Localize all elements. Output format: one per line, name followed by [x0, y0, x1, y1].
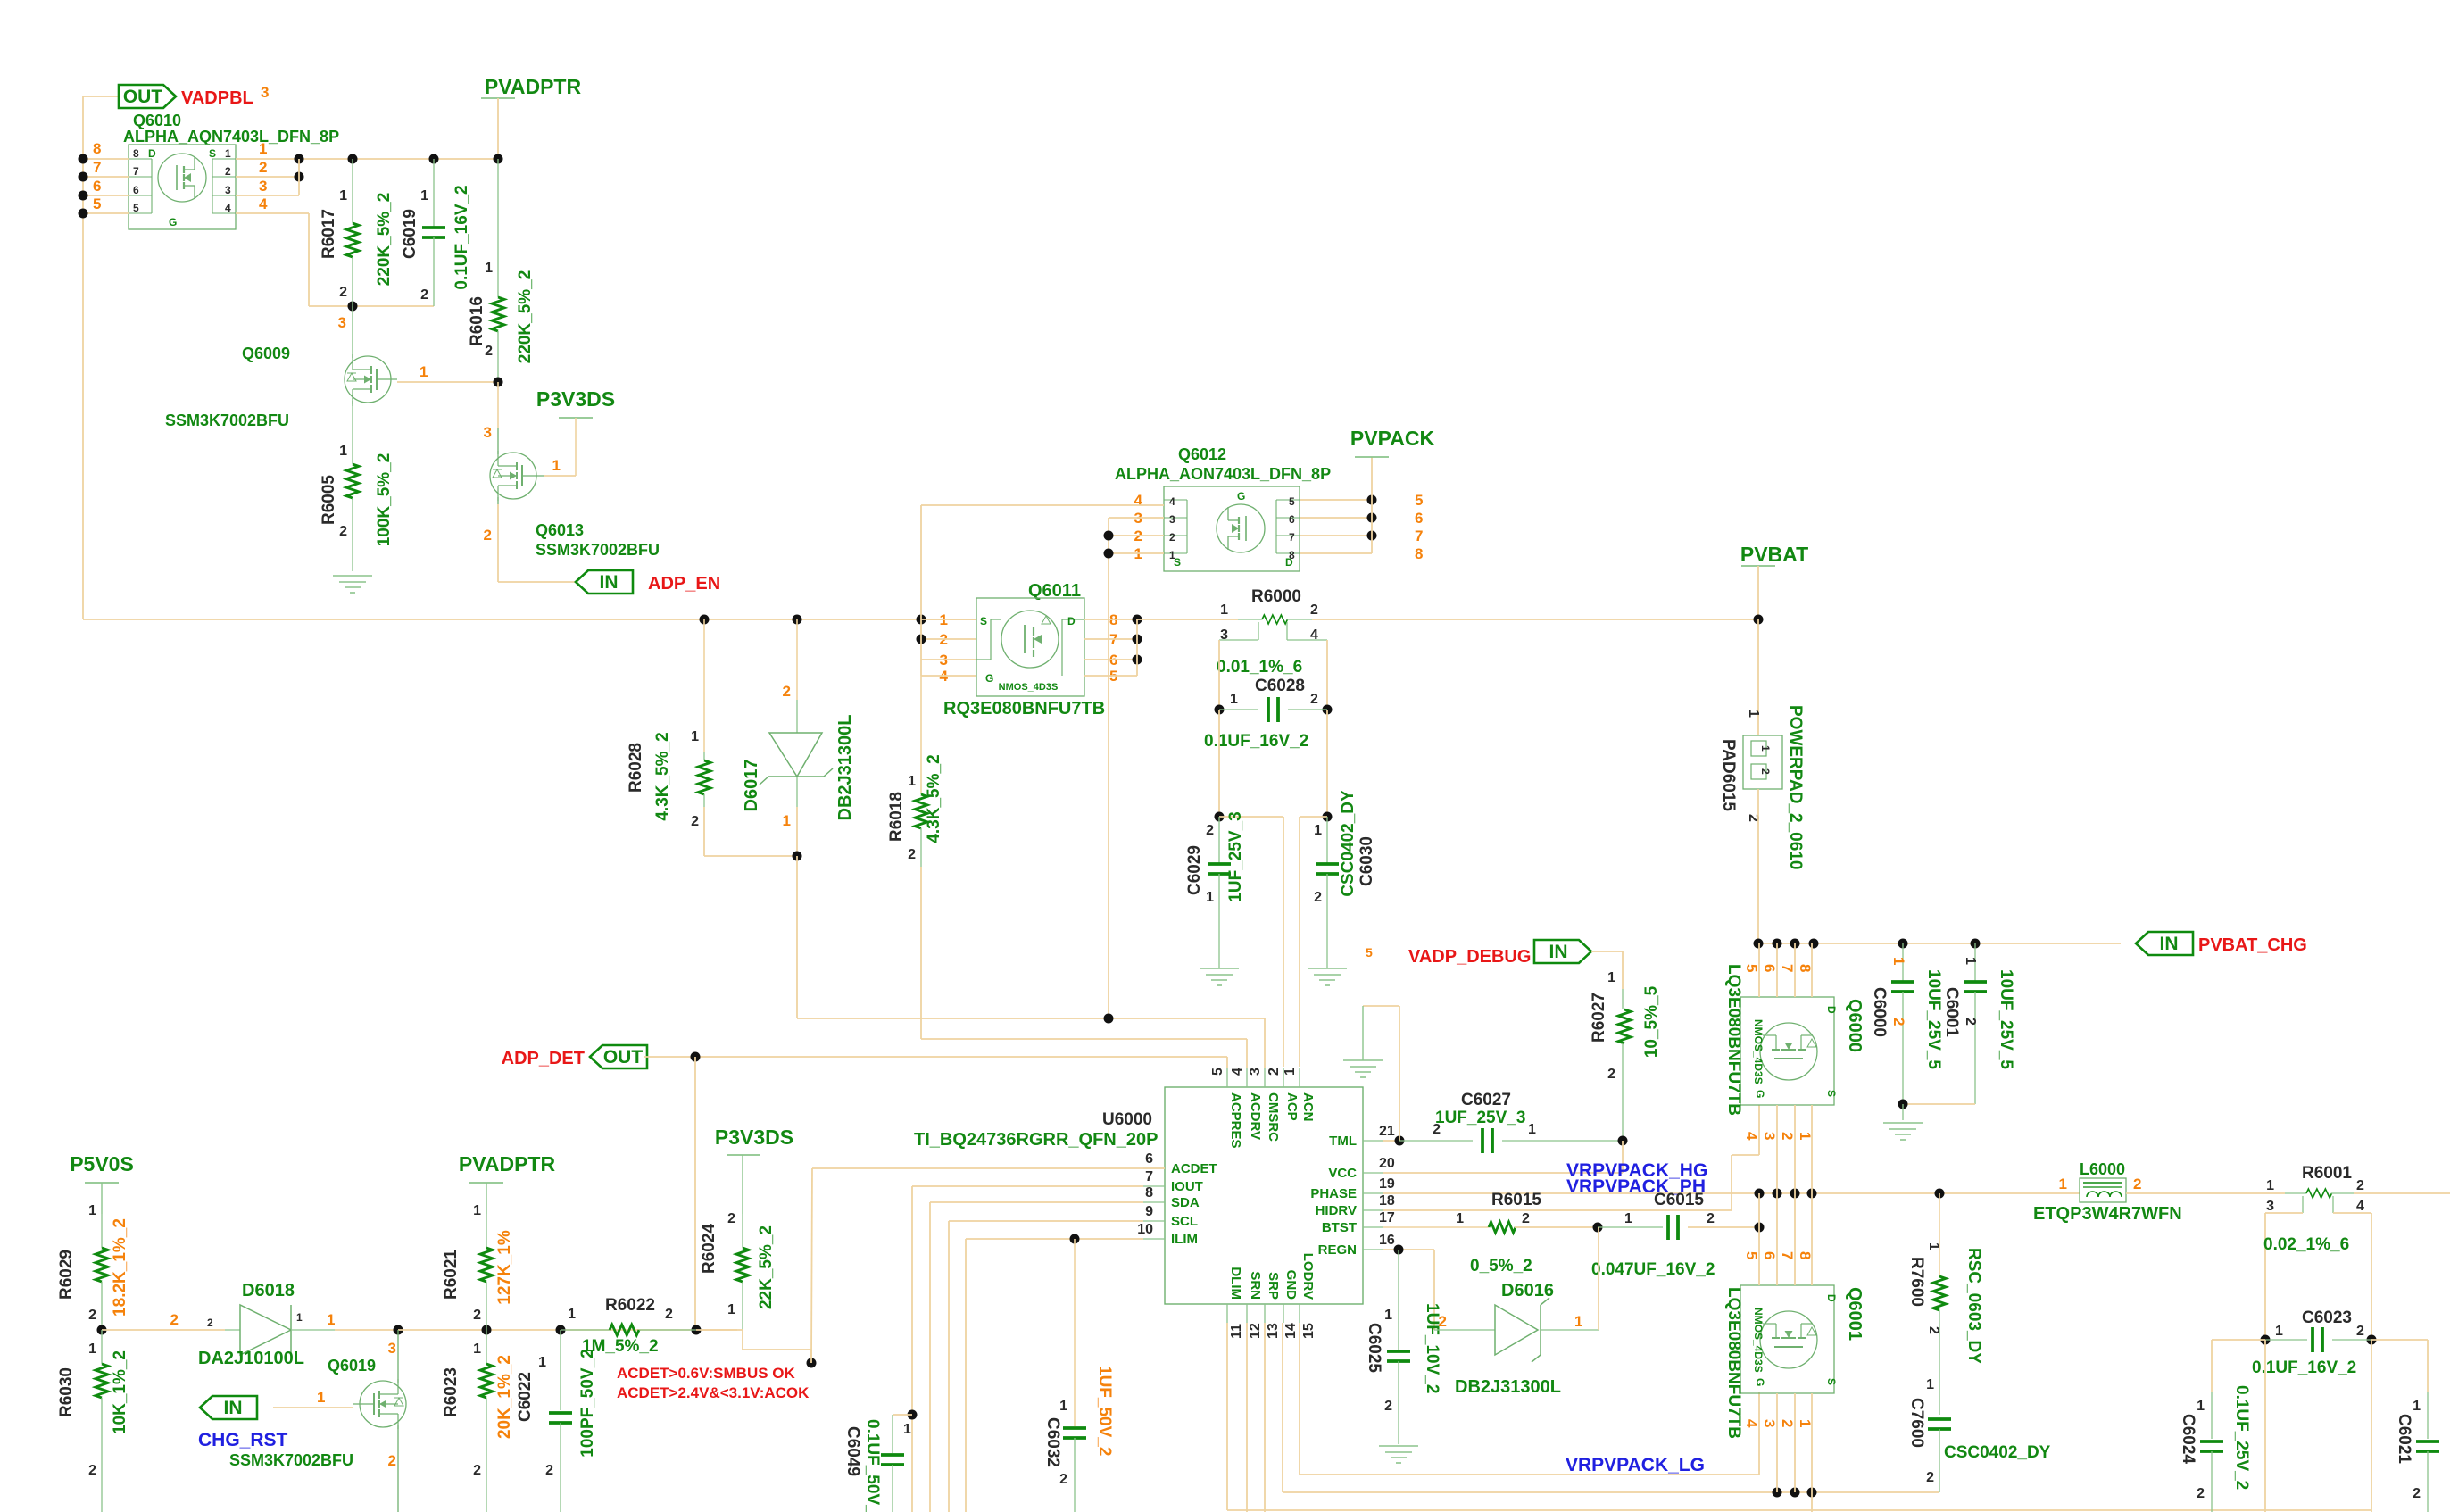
Q6011 right pin wires	[1084, 611, 1142, 685]
ground TML	[1343, 1060, 1383, 1077]
svg-text:2: 2	[1206, 823, 1214, 838]
capacitor C6023 0.1UF	[2252, 1308, 2377, 1377]
svg-text:2: 2	[1169, 531, 1175, 544]
svg-text:IN: IN	[2160, 934, 2179, 954]
IC U6000 TI_BQ24736RGRR_QFN_20P	[914, 1068, 1395, 1339]
svg-text:10UF_25V_5: 10UF_25V_5	[1924, 969, 1943, 1069]
svg-text:NMOS_4D3S: NMOS_4D3S	[1752, 1308, 1765, 1373]
svg-text:3: 3	[1169, 513, 1175, 526]
svg-text:RSC_0603_DY: RSC_0603_DY	[1964, 1248, 1983, 1364]
wire DLIM down	[1226, 1323, 1228, 1510]
resistor R6016 220K	[468, 159, 535, 382]
wire GND to source row	[1283, 1323, 1939, 1498]
svg-text:R7600: R7600	[1907, 1257, 1926, 1307]
svg-text:1: 1	[1456, 1211, 1464, 1226]
capacitor C6028 0.1UF	[1204, 640, 1333, 751]
svg-text:5: 5	[1289, 495, 1295, 508]
svg-text:9: 9	[1145, 1204, 1153, 1219]
svg-text:17: 17	[1379, 1210, 1395, 1225]
svg-text:1: 1	[1963, 957, 1978, 965]
svg-text:7: 7	[133, 165, 139, 178]
svg-text:1: 1	[727, 1302, 735, 1317]
capacitor C6019 0.1UF	[401, 159, 471, 306]
svg-text:3: 3	[1761, 1132, 1778, 1140]
capacitor C6015 0.047UF	[1591, 1191, 1765, 1279]
net flag IN PVBAT_CHG	[2136, 932, 2193, 955]
wire SRP SRN sense columns	[2212, 1340, 2428, 1512]
svg-text:LODRV: LODRV	[1300, 1253, 1316, 1300]
wire to Q6009 drain	[338, 306, 353, 354]
svg-text:1: 1	[2059, 1176, 2067, 1192]
svg-text:1: 1	[296, 1311, 303, 1324]
svg-text:NMOS_4D3S: NMOS_4D3S	[1752, 1019, 1765, 1084]
svg-text:14: 14	[1283, 1323, 1299, 1339]
svg-text:4: 4	[259, 195, 268, 212]
svg-text:15: 15	[1301, 1323, 1316, 1339]
Q6011 left pin wires	[917, 611, 977, 685]
svg-text:NMOS_4D3S: NMOS_4D3S	[999, 682, 1059, 693]
svg-text:C6000: C6000	[1870, 987, 1889, 1037]
svg-text:ALPHA_AON7403L_DFN_8P: ALPHA_AON7403L_DFN_8P	[1115, 465, 1331, 483]
svg-text:2: 2	[1926, 1326, 1941, 1334]
svg-text:R6000: R6000	[1251, 587, 1301, 606]
svg-text:2: 2	[2356, 1324, 2364, 1339]
svg-text:C6028: C6028	[1255, 677, 1305, 695]
Q6010 right pin wires	[236, 140, 503, 312]
svg-text:DB2J31300L: DB2J31300L	[835, 715, 855, 821]
svg-text:1: 1	[1759, 745, 1772, 752]
wire P5V0S node dot	[97, 1325, 226, 1335]
svg-text:2: 2	[783, 683, 791, 700]
svg-text:5: 5	[133, 202, 139, 214]
transistor Q6001 LQ3E080BNFU7TB	[1724, 1285, 1864, 1439]
svg-text:1: 1	[485, 261, 493, 276]
svg-text:REGN: REGN	[1318, 1242, 1357, 1258]
wire ACDRV net	[921, 1039, 1247, 1068]
svg-text:2: 2	[259, 159, 267, 176]
svg-text:TI_BQ24736RGRR_QFN_20P: TI_BQ24736RGRR_QFN_20P	[914, 1130, 1158, 1150]
net label ADP_DET	[502, 1049, 585, 1068]
ground below C6025	[1379, 1446, 1418, 1463]
capacitor C6000 10UF	[1870, 943, 1943, 1104]
svg-text:5: 5	[1415, 492, 1423, 509]
svg-text:19: 19	[1379, 1176, 1395, 1192]
svg-text:D: D	[1825, 1006, 1838, 1014]
svg-text:OUT: OUT	[123, 87, 163, 107]
svg-text:8: 8	[133, 147, 139, 160]
net flag IN ADP_EN	[576, 570, 633, 594]
svg-text:VCC: VCC	[1328, 1166, 1357, 1181]
transistor Q6012 ALPHA_AON7403L_DFN_8P	[1115, 445, 1331, 571]
svg-text:1: 1	[1314, 823, 1322, 838]
svg-text:1: 1	[1746, 710, 1761, 718]
wire VCC to C6027	[1383, 1141, 1623, 1173]
capacitor C6021 0.1UF	[2395, 1385, 2450, 1512]
transistor Q6019 SSM3K7002BFU	[229, 1330, 406, 1512]
svg-text:C6021: C6021	[2395, 1414, 2413, 1464]
svg-text:1: 1	[691, 729, 699, 744]
wire REGN node	[1383, 1245, 1434, 1331]
svg-text:0.047UF_16V_2: 0.047UF_16V_2	[1591, 1260, 1715, 1279]
resistor R6017 220K	[320, 159, 394, 306]
svg-text:1: 1	[1220, 602, 1228, 618]
svg-text:PAD6015: PAD6015	[1719, 739, 1738, 811]
wire IOUT net	[908, 1186, 1144, 1512]
svg-text:R6016: R6016	[468, 296, 486, 346]
svg-text:R6023: R6023	[442, 1367, 461, 1417]
svg-text:2: 2	[1779, 1132, 1796, 1140]
svg-text:G: G	[169, 216, 177, 228]
svg-text:LQ3E080BNFU7TB: LQ3E080BNFU7TB	[1724, 1287, 1743, 1439]
svg-text:18: 18	[1379, 1193, 1395, 1209]
svg-text:2: 2	[1433, 1122, 1441, 1137]
wire HIDRV to Q6000 gate	[1383, 1105, 1759, 1210]
Q6001 pin wires	[1743, 1193, 1814, 1512]
svg-text:3: 3	[259, 178, 267, 195]
svg-text:4: 4	[1134, 492, 1143, 509]
svg-text:G: G	[985, 672, 993, 685]
capacitor C7600 CSC0402_DY	[1907, 1377, 2051, 1492]
capacitor C6024 0.1UF	[2179, 1385, 2251, 1512]
svg-text:Q6000: Q6000	[1845, 999, 1864, 1052]
inductor L6000 ETQP3W4R7WFN	[2033, 1160, 2258, 1224]
svg-text:2: 2	[1384, 1399, 1392, 1414]
svg-text:20K_1%_2: 20K_1%_2	[495, 1355, 514, 1439]
svg-text:2: 2	[665, 1307, 673, 1322]
wire SCL net	[949, 1221, 1143, 1512]
svg-text:C6030: C6030	[1358, 836, 1376, 886]
svg-text:PVADPTR: PVADPTR	[485, 75, 582, 98]
svg-text:6: 6	[1145, 1151, 1153, 1167]
resistor R6030 10K	[57, 1330, 129, 1512]
svg-text:1: 1	[473, 1203, 481, 1218]
svg-text:127K_1%: 127K_1%	[495, 1230, 514, 1305]
svg-text:3: 3	[2266, 1199, 2274, 1214]
svg-text:ADP_EN: ADP_EN	[648, 574, 720, 594]
svg-text:1: 1	[2275, 1324, 2283, 1339]
red note ACOK	[617, 1384, 810, 1401]
svg-text:1: 1	[88, 1342, 96, 1357]
svg-text:ACDET>2.4V&<3.1V:ACOK: ACDET>2.4V&<3.1V:ACOK	[617, 1384, 810, 1401]
svg-text:DLIM: DLIM	[1228, 1267, 1243, 1300]
resistor R7600 RSC_0603_DY	[1907, 1193, 1983, 1415]
svg-text:6: 6	[1761, 964, 1778, 972]
svg-text:1: 1	[1890, 957, 1907, 965]
svg-text:4: 4	[1230, 1068, 1245, 1076]
svg-text:ACPRES: ACPRES	[1228, 1092, 1243, 1149]
svg-text:PVADPTR: PVADPTR	[459, 1152, 556, 1176]
svg-text:1UF_50V_2: 1UF_50V_2	[1095, 1366, 1114, 1456]
svg-text:8: 8	[1415, 545, 1423, 562]
svg-text:ACDRV: ACDRV	[1248, 1092, 1263, 1140]
svg-text:D6018: D6018	[242, 1281, 295, 1300]
Q6012 left pin wires	[921, 492, 1164, 1018]
wire ACDET junction	[696, 1168, 817, 1368]
svg-text:Q6009: Q6009	[242, 345, 290, 362]
svg-text:ILIM: ILIM	[1171, 1232, 1198, 1247]
wire ACPRES net ADP_DET	[695, 1057, 1227, 1068]
svg-text:ADP_DET: ADP_DET	[502, 1049, 585, 1068]
svg-text:C6023: C6023	[2302, 1308, 2352, 1327]
svg-text:2: 2	[388, 1452, 396, 1469]
svg-text:10_5%_5: 10_5%_5	[1642, 985, 1661, 1058]
net label VADPBL	[181, 84, 269, 108]
wire SRP down	[1264, 1323, 1266, 1512]
svg-text:3: 3	[484, 424, 492, 441]
svg-text:ACDET: ACDET	[1171, 1161, 1217, 1176]
svg-text:2: 2	[1310, 602, 1318, 618]
svg-text:220K_5%_2: 220K_5%_2	[516, 270, 535, 364]
wire bottom rail	[1227, 1509, 2371, 1511]
ground below C6030	[1308, 968, 1347, 985]
svg-text:ALPHA_AQN7403L_DFN_8P: ALPHA_AQN7403L_DFN_8P	[123, 128, 339, 145]
svg-text:6: 6	[1289, 513, 1295, 526]
resistor R6029 18.2K	[57, 1203, 129, 1330]
wire SRN down	[1246, 1323, 1248, 1512]
resistor R6001 0.02 sense	[2258, 1164, 2450, 1340]
svg-text:2: 2	[1779, 1419, 1796, 1427]
diode D6016 DB2J31300L	[1434, 1227, 1599, 1397]
svg-text:2: 2	[2197, 1486, 2205, 1501]
svg-text:GND: GND	[1283, 1270, 1299, 1300]
svg-text:1: 1	[1574, 1313, 1582, 1330]
svg-text:2: 2	[1607, 1067, 1615, 1082]
svg-text:R6022: R6022	[605, 1296, 655, 1315]
svg-text:Q6001: Q6001	[1845, 1287, 1864, 1341]
svg-text:1: 1	[783, 812, 791, 829]
ground below R6005	[333, 576, 372, 593]
wire Q6009 gate to PVADPTR column	[397, 363, 503, 387]
svg-text:0.1UF_25V_2: 0.1UF_25V_2	[2232, 1385, 2251, 1490]
svg-text:2: 2	[473, 1308, 481, 1323]
svg-text:0.02_1%_6: 0.02_1%_6	[2263, 1235, 2349, 1254]
svg-text:S: S	[1825, 1378, 1838, 1385]
svg-text:1UF_25V_3: 1UF_25V_3	[1435, 1109, 1525, 1127]
svg-text:3: 3	[338, 314, 346, 331]
resistor R6021 127K	[442, 1203, 514, 1330]
svg-text:BTST: BTST	[1322, 1220, 1357, 1235]
svg-text:R6017: R6017	[320, 209, 338, 259]
svg-text:1: 1	[1059, 1399, 1067, 1414]
svg-text:1: 1	[1607, 970, 1615, 985]
svg-text:1: 1	[1230, 692, 1238, 707]
svg-text:13: 13	[1266, 1323, 1281, 1339]
svg-text:2: 2	[908, 847, 916, 862]
svg-text:8: 8	[1797, 1251, 1814, 1259]
svg-text:22K_5%_2: 22K_5%_2	[757, 1225, 776, 1309]
svg-text:2: 2	[420, 287, 428, 303]
svg-text:Q6013: Q6013	[536, 521, 584, 539]
transistor Q6009 SSM3K7002BFU	[165, 345, 397, 429]
svg-text:7: 7	[93, 159, 101, 176]
svg-text:2: 2	[1890, 1018, 1907, 1026]
svg-text:2: 2	[1759, 768, 1772, 775]
svg-text:5: 5	[1366, 945, 1373, 960]
svg-text:ACN: ACN	[1300, 1092, 1316, 1122]
svg-text:2: 2	[1059, 1472, 1067, 1487]
wire ADP_DET to flag	[644, 1052, 701, 1331]
svg-text:10: 10	[1137, 1222, 1153, 1237]
svg-text:220K_5%_2: 220K_5%_2	[375, 193, 394, 287]
wire TML to ground	[1363, 1006, 1405, 1146]
svg-text:3: 3	[225, 184, 231, 196]
svg-text:2: 2	[727, 1211, 735, 1226]
svg-text:2: 2	[88, 1463, 96, 1478]
power PVPACK	[1350, 427, 1435, 457]
wire ILIM net	[966, 1234, 1143, 1512]
svg-text:0.01_1%_6: 0.01_1%_6	[1217, 658, 1302, 677]
capacitor C6027 1UF	[1399, 1091, 1628, 1153]
wire VADPBL left vertical bus	[83, 96, 118, 619]
Q6000 pin wires	[1743, 943, 1814, 1193]
net label VRPVPACK_LG	[1566, 1455, 1705, 1475]
power P3V3DS bottom	[715, 1126, 793, 1214]
wire D6018 node row	[394, 1325, 738, 1335]
resistor R6015 0ohm	[1383, 1191, 1603, 1275]
diode D6018 DA2J10100L	[170, 1281, 398, 1368]
svg-text:C6019: C6019	[401, 209, 419, 259]
svg-text:100PF_50V_2: 100PF_50V_2	[578, 1349, 597, 1458]
svg-text:1: 1	[327, 1311, 335, 1328]
wire SDA net	[930, 1202, 1143, 1512]
svg-text:HIDRV: HIDRV	[1316, 1203, 1357, 1218]
net flag OUT VADPBL	[119, 85, 176, 108]
svg-text:1: 1	[1384, 1308, 1392, 1323]
capacitor C6029 1UF	[1185, 811, 1245, 968]
net label VRPVPACK_PH	[1566, 1176, 1706, 1197]
wire C6000 C6001 gnd rail	[1898, 1100, 1976, 1121]
svg-text:C6029: C6029	[1185, 845, 1204, 895]
svg-text:2: 2	[1707, 1211, 1715, 1226]
transistor Q6010 ALPHA_AQN7403L_DFN_8P	[123, 112, 339, 229]
svg-text:2: 2	[545, 1463, 553, 1478]
svg-text:2: 2	[1522, 1211, 1530, 1226]
resistor R6023 20K	[442, 1330, 514, 1512]
svg-text:1: 1	[420, 188, 428, 204]
svg-text:R6029: R6029	[57, 1250, 76, 1300]
svg-text:6: 6	[1415, 510, 1423, 527]
label R6000 value	[1217, 658, 1302, 677]
label small 5	[1366, 945, 1373, 960]
svg-text:20: 20	[1379, 1156, 1395, 1171]
ground below C6029	[1200, 968, 1239, 985]
transistor Q6013 SSM3K7002BFU	[490, 428, 660, 559]
svg-text:2: 2	[207, 1317, 213, 1329]
svg-text:L6000: L6000	[2080, 1160, 2125, 1178]
resistor R6022 1M	[561, 1296, 696, 1356]
svg-text:VRPVPACK_LG: VRPVPACK_LG	[1566, 1455, 1705, 1475]
svg-text:2: 2	[1267, 1068, 1282, 1076]
svg-text:C6027: C6027	[1461, 1091, 1511, 1109]
svg-text:CSC0402_DY: CSC0402_DY	[1944, 1443, 2051, 1462]
power P3V3DS upper	[536, 387, 615, 476]
svg-text:8: 8	[1797, 964, 1814, 972]
svg-text:3: 3	[1248, 1068, 1263, 1076]
svg-text:R6005: R6005	[320, 475, 338, 525]
svg-text:0.1UF_50V_2: 0.1UF_50V_2	[863, 1419, 882, 1512]
svg-text:6: 6	[93, 178, 101, 195]
svg-text:SDA: SDA	[1171, 1195, 1200, 1210]
svg-text:1: 1	[908, 774, 916, 789]
capacitor C6049 0.1UF	[843, 1415, 912, 1512]
svg-text:1UF_25V_3: 1UF_25V_3	[1226, 811, 1245, 901]
svg-text:SCL: SCL	[1171, 1214, 1198, 1229]
svg-text:P5V0S: P5V0S	[70, 1152, 134, 1176]
svg-text:5: 5	[93, 195, 101, 212]
wire PHASE row VRPVPACK_PH	[1383, 1189, 2080, 1199]
resistor R6028 4.3K	[627, 619, 797, 856]
svg-text:IN: IN	[224, 1398, 243, 1418]
svg-text:1: 1	[473, 1342, 481, 1357]
svg-text:5: 5	[1743, 964, 1760, 972]
svg-text:G: G	[1754, 1378, 1766, 1386]
Q6010 left pins 8 7 6 5	[79, 140, 129, 219]
svg-text:0.1UF_16V_2: 0.1UF_16V_2	[453, 185, 471, 289]
svg-text:1: 1	[259, 140, 267, 157]
svg-text:C7600: C7600	[1907, 1398, 1926, 1448]
svg-text:4: 4	[1743, 1132, 1760, 1141]
svg-text:CMSRC: CMSRC	[1266, 1092, 1281, 1142]
svg-text:1: 1	[419, 363, 428, 380]
wire PVADPTR col to Q6013	[484, 382, 498, 441]
transistor Q6000 LQ3E080BNFU7TB	[1724, 964, 1864, 1116]
svg-text:1: 1	[1283, 1068, 1298, 1076]
svg-text:POWERPAD_2_0610: POWERPAD_2_0610	[1786, 705, 1805, 869]
svg-text:Q6010: Q6010	[133, 112, 181, 129]
svg-text:C6032: C6032	[1043, 1417, 1062, 1467]
svg-text:2: 2	[484, 527, 492, 544]
svg-text:S: S	[1825, 1090, 1838, 1097]
capacitor C6022 100PF	[516, 1330, 597, 1512]
power PVADPTR bottom	[459, 1152, 556, 1214]
svg-text:C6025: C6025	[1365, 1323, 1383, 1373]
svg-text:2: 2	[1314, 890, 1322, 905]
svg-text:P3V3DS: P3V3DS	[715, 1126, 793, 1149]
svg-text:2: 2	[1963, 1018, 1978, 1026]
wire PVBAT_CHG row	[1754, 939, 2122, 949]
svg-text:ETQP3W4R7WFN: ETQP3W4R7WFN	[2033, 1204, 2182, 1224]
svg-text:D: D	[1067, 615, 1076, 627]
svg-text:12: 12	[1248, 1323, 1263, 1339]
svg-text:C6015: C6015	[1654, 1191, 1704, 1209]
wire LODRV to Q6001 gate row	[1300, 1323, 1759, 1475]
power PVBAT	[1740, 543, 1808, 625]
svg-text:4: 4	[1169, 495, 1175, 508]
svg-text:5: 5	[1210, 1068, 1225, 1076]
svg-text:CSC0402_DY: CSC0402_DY	[1339, 790, 1358, 897]
svg-text:2: 2	[225, 165, 231, 178]
resistor R6027 10	[1590, 951, 1661, 1141]
svg-text:1: 1	[88, 1203, 96, 1218]
svg-text:1: 1	[317, 1389, 325, 1406]
svg-text:1: 1	[1206, 890, 1214, 905]
svg-text:G: G	[1754, 1090, 1766, 1098]
diode D6017 DB2J31300L	[742, 619, 855, 1018]
svg-text:4: 4	[225, 202, 231, 214]
svg-text:SSM3K7002BFU: SSM3K7002BFU	[536, 541, 660, 559]
svg-text:3: 3	[1761, 1419, 1778, 1427]
capacitor C6030 CSC0402_DY	[1314, 790, 1376, 968]
svg-text:D: D	[1825, 1294, 1838, 1302]
svg-text:5: 5	[1743, 1251, 1760, 1259]
svg-text:OUT: OUT	[603, 1047, 644, 1068]
svg-text:PHASE: PHASE	[1310, 1186, 1357, 1201]
wire Q6013 gate	[544, 457, 576, 476]
svg-text:C6022: C6022	[516, 1372, 535, 1422]
svg-text:1: 1	[2413, 1399, 2421, 1414]
svg-text:1: 1	[2266, 1178, 2274, 1193]
svg-text:4.3K_5%_2: 4.3K_5%_2	[925, 754, 943, 843]
